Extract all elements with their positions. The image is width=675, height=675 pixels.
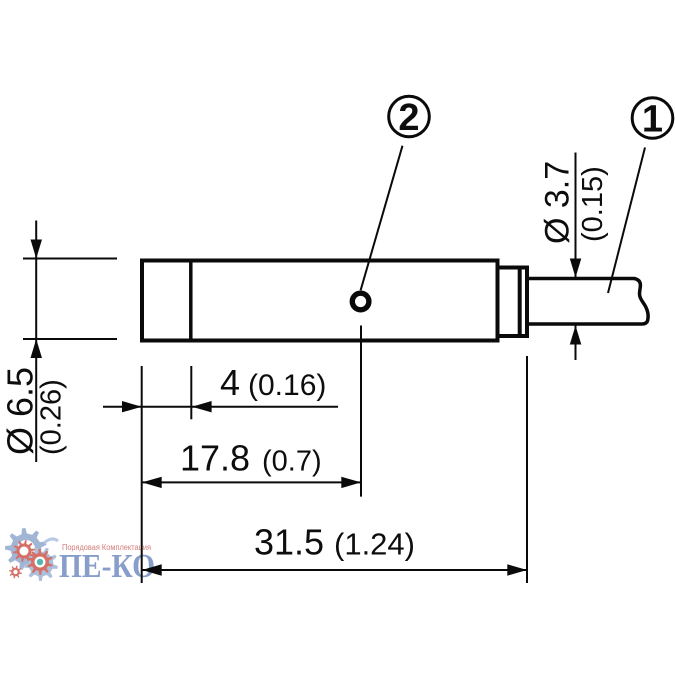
svg-text:(1.24): (1.24) xyxy=(334,527,415,562)
watermark logo PE-KO xyxy=(5,528,155,585)
dimension dia 3.7 xyxy=(575,153,577,361)
LED hole xyxy=(352,293,369,310)
svg-text:1: 1 xyxy=(642,99,663,141)
logo gear red lower xyxy=(27,549,52,575)
svg-text:(0.7): (0.7) xyxy=(262,446,322,478)
svg-text:17.8: 17.8 xyxy=(180,438,250,479)
svg-text:ПЕ-КО: ПЕ-КО xyxy=(59,548,155,585)
svg-text:4: 4 xyxy=(220,362,240,403)
sensor body xyxy=(142,261,648,341)
logo gear red upper xyxy=(13,540,35,562)
svg-text:Ø 6.5: Ø 6.5 xyxy=(0,367,41,455)
logo gear blue small xyxy=(24,547,58,581)
svg-text:2: 2 xyxy=(398,97,419,139)
collar divider xyxy=(518,268,522,337)
collar xyxy=(498,268,528,337)
svg-text:(0.16): (0.16) xyxy=(248,369,326,402)
logo gear blue large xyxy=(5,528,47,570)
dimension 4 xyxy=(103,366,338,583)
cable with break xyxy=(527,279,648,325)
body face divider xyxy=(189,261,193,341)
svg-text:31.5: 31.5 xyxy=(254,522,324,563)
svg-text:(0.26): (0.26) xyxy=(36,379,68,455)
logo swirl xyxy=(44,539,58,543)
dimension dia 6.5 xyxy=(23,221,117,463)
svg-text:Ø 3.7: Ø 3.7 xyxy=(539,161,577,244)
callout 2 xyxy=(361,96,430,290)
logo gear red tiny xyxy=(9,566,22,579)
callout 1 xyxy=(608,98,673,293)
dimension 31.5 xyxy=(142,356,527,583)
dimension 17.8 xyxy=(142,326,361,497)
svg-text:(0.15): (0.15) xyxy=(577,166,609,242)
